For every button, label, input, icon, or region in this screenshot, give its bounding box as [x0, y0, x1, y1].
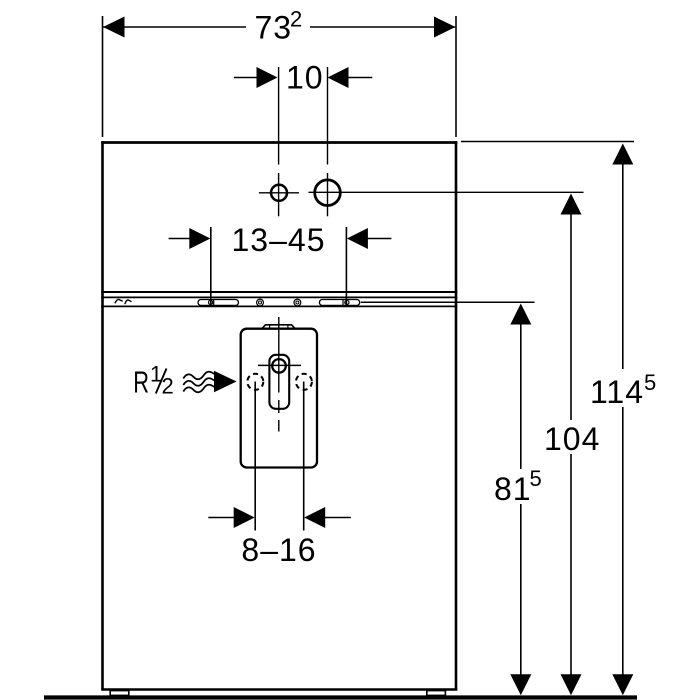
small tap hole crosshair horizontal — [259, 192, 299, 194]
dimension 13-45 right arrow — [347, 228, 368, 249]
rail left bracket pivot circle — [209, 300, 213, 304]
dimension 114.5 label background — [588, 369, 658, 407]
dimension 104 label background — [543, 420, 601, 454]
dimension 8-16 left tail line — [208, 517, 234, 519]
svg-text:5: 5 — [530, 466, 542, 491]
small tap hole circle — [271, 185, 287, 201]
trap panel tab tick right — [287, 325, 289, 329]
mounting rail top line — [101, 296, 457, 298]
dimension 8-16 left arrow — [234, 507, 255, 528]
svg-text:104: 104 — [544, 421, 600, 457]
centerline through large tap hole upper — [327, 67, 329, 165]
cabinet bottom edge — [101, 688, 457, 690]
dimension 8-16 right tail line — [325, 517, 351, 519]
centerline through small tap hole upper — [278, 67, 280, 165]
cabinet outline left edge — [101, 141, 104, 689]
rail right bracket slot — [319, 300, 359, 306]
dimension 104 vertical line — [570, 213, 572, 676]
dimension 114.5 down arrow — [612, 674, 633, 695]
svg-text:R: R — [133, 364, 149, 399]
rail right bracket pivot circle — [345, 300, 349, 304]
dimension 73.2 left arrow — [103, 17, 125, 38]
cabinet outline right edge — [455, 141, 458, 689]
dimension 73.2 extension line left — [102, 16, 104, 137]
left fixing dashed circle — [247, 374, 263, 390]
dimension 13-45 right tail line — [367, 238, 391, 240]
rail left screw outer — [257, 299, 264, 306]
svg-text:2: 2 — [162, 373, 174, 398]
dimension 73.2 line left segment — [103, 26, 246, 28]
dimension 10 right arrow — [328, 67, 349, 88]
dimension 13-45 extension line right — [345, 227, 347, 304]
dimension 81.5 label background — [492, 469, 546, 504]
label R 1/2 fraction slash — [156, 369, 167, 394]
dimension 8-16 right arrow — [304, 507, 325, 528]
trap slot — [269, 355, 289, 409]
dimension 104 down arrow — [561, 674, 582, 695]
trap centerline vertical dashes — [278, 400, 280, 432]
trap inlet circle — [272, 359, 286, 373]
large tap hole circle — [315, 180, 341, 206]
dimension 114.5 up arrow — [612, 144, 633, 165]
large tap hole crosshair / 104 extension line — [309, 191, 584, 193]
dimension 13-45 left tail line — [169, 238, 190, 240]
dimension 10 right tail line — [348, 77, 372, 79]
centerline through large tap hole lower — [327, 173, 329, 216]
dimension 81.5 up arrow — [510, 304, 531, 325]
right foot — [427, 691, 446, 696]
trap centerline vertical upper — [278, 317, 280, 393]
rail left bracket divider — [213, 300, 215, 306]
rail right bracket divider — [342, 300, 344, 306]
water supply arrow — [214, 371, 237, 392]
water supply wave middle — [183, 378, 214, 386]
trap panel tab tick left — [269, 325, 271, 329]
svg-text:8–16: 8–16 — [241, 532, 316, 568]
rail left bracket slot — [198, 300, 239, 306]
left foot — [110, 691, 129, 696]
water supply wave bottom — [183, 385, 214, 393]
dimension 73.2 right arrow — [434, 17, 456, 38]
svg-text:114: 114 — [590, 374, 644, 410]
trap inlet crosshair horizontal — [258, 364, 301, 366]
dimension 8-16 extension line left — [254, 382, 256, 531]
dimension 10 left arrow — [257, 67, 278, 88]
centerline through small tap hole lower — [278, 173, 280, 216]
trap panel top tab — [262, 325, 295, 329]
svg-text:81: 81 — [494, 471, 532, 507]
dimension 81.5 down arrow — [510, 674, 531, 695]
extension line top edge right — [461, 141, 634, 143]
rail left hose squiggle — [115, 299, 123, 303]
rail right screw inner — [296, 301, 299, 304]
svg-text:10: 10 — [286, 60, 324, 96]
dimension 13-45 extension line left — [210, 227, 212, 304]
rail left screw inner — [259, 301, 262, 304]
dimension 73.2 extension line right — [455, 16, 457, 137]
right fixing dashed circle — [296, 374, 312, 390]
dimension 81.5 vertical line — [520, 322, 522, 676]
svg-text:2: 2 — [290, 7, 302, 32]
svg-text:13–45: 13–45 — [232, 222, 326, 258]
mounting rail bottom line — [101, 305, 457, 307]
cabinet top edge — [101, 141, 457, 144]
upper box bottom edge — [101, 291, 457, 293]
dimension 104 up arrow — [561, 194, 582, 215]
ground line — [44, 695, 637, 699]
svg-text:73: 73 — [255, 10, 293, 46]
dimension 114.5 vertical line — [622, 163, 624, 676]
dimension 13-45 left arrow — [189, 228, 210, 249]
svg-text:5: 5 — [644, 370, 656, 395]
rail right hose squiggle — [125, 300, 132, 304]
water supply wave top — [183, 372, 214, 380]
dimension 10 left tail line — [234, 77, 257, 79]
trap panel outline — [241, 329, 317, 468]
dimension 8-16 extension line right — [303, 382, 305, 531]
dimension 73.2 line right segment — [310, 26, 455, 28]
rail right screw outer — [294, 299, 301, 306]
extension line rail right — [361, 301, 535, 303]
